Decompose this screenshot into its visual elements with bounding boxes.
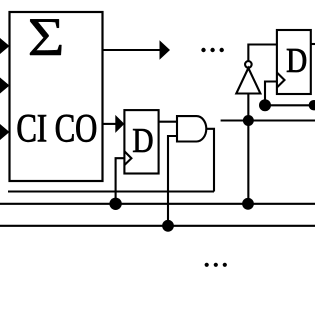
wire AND in2 — [168, 136, 177, 226]
arrowhead CO to D input — [115, 115, 124, 133]
wire sum output — [103, 49, 161, 51]
wire CO output — [103, 123, 117, 125]
wire inverter output to U5 D input — [248, 45, 277, 62]
wire U2 Q to AND in1 — [159, 121, 177, 123]
input arrow A — [0, 37, 10, 55]
wire AND output — [206, 129, 214, 192]
input arrow CI — [0, 123, 10, 141]
ellipsis top — [201, 48, 224, 52]
label CI CO — [18, 115, 96, 142]
wire inverter input vertical — [247, 94, 249, 204]
flip-flop U2 (middle D) — [124, 110, 158, 173]
adder U1 (sigma block) — [10, 12, 103, 181]
junction dot inverter input on L2 — [242, 198, 254, 210]
AND gate U3 — [177, 116, 206, 141]
wire U5 clock — [265, 82, 277, 106]
junction dot right edge — [309, 100, 319, 110]
inverter U4 bubble — [245, 61, 252, 68]
wire feedback line — [221, 119, 315, 121]
label D of U5 — [287, 49, 306, 72]
wire clock feed right — [265, 104, 314, 106]
wire U5 Q stub — [311, 43, 315, 45]
input arrow B — [0, 76, 10, 94]
clock triangle U2 — [124, 151, 131, 165]
label D of U2 — [133, 129, 152, 152]
junction dot AND in2 on L3 — [162, 220, 174, 232]
label sigma — [30, 19, 61, 55]
ellipsis bottom — [205, 263, 227, 267]
wire L2 (clock bus) — [0, 203, 315, 205]
clock triangle U5 — [277, 73, 285, 88]
wire L3 (enable bus) — [0, 225, 315, 227]
arrowhead sum output — [160, 40, 171, 60]
inverter U4 triangle — [236, 68, 260, 94]
junction dot U5 clock — [259, 99, 271, 111]
junction dot U2 clock on L2 — [109, 198, 121, 210]
wire L1 (AND output bus) — [8, 190, 214, 192]
wire U2 clock to L2 — [116, 158, 125, 204]
junction dot feedback x inverter — [243, 115, 254, 126]
flip-flop U5 (top right D) — [277, 30, 311, 94]
